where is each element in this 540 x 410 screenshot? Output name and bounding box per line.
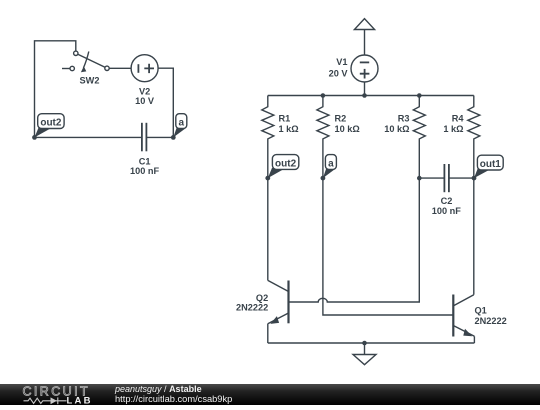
capacitor C1	[130, 123, 159, 176]
svg-text:SW2: SW2	[80, 75, 100, 85]
svg-text:V2: V2	[139, 87, 150, 97]
wire Q2 emitter down	[267, 324, 269, 343]
wire V2 to right	[158, 68, 173, 137]
svg-text:out2: out2	[275, 158, 297, 169]
resistor R3	[384, 96, 425, 179]
svg-text:10 V: 10 V	[135, 96, 155, 106]
voltage source V1	[329, 55, 378, 82]
svg-text:10 kΩ: 10 kΩ	[335, 124, 360, 134]
transistor Q2	[236, 280, 288, 324]
top rail	[268, 95, 474, 97]
svg-text:C2: C2	[441, 196, 453, 206]
resistor R1	[262, 96, 299, 179]
logo diode	[48, 400, 67, 402]
svg-text:100 nF: 100 nF	[130, 166, 159, 176]
svg-text:R3: R3	[398, 114, 410, 124]
svg-text:out2: out2	[40, 117, 62, 128]
transistor Q1	[453, 295, 506, 337]
svg-text:2N2222: 2N2222	[475, 316, 507, 326]
wire R4 branch down to Q1 collector	[473, 178, 475, 295]
wire SW2 to V2	[109, 67, 131, 69]
node out2 (right flag)	[265, 155, 298, 181]
node a (right flag)	[321, 155, 337, 181]
svg-text:1 kΩ: 1 kΩ	[279, 124, 299, 134]
svg-text:http://circuitlab.com/csab9kp: http://circuitlab.com/csab9kp	[115, 394, 232, 404]
wire a-branch to Q1 base	[323, 178, 453, 315]
bottom rail	[268, 342, 475, 344]
wire bottom right	[146, 136, 173, 138]
wire R1 branch down to Q2 collector	[267, 178, 269, 280]
logo resistor squiggle	[24, 397, 67, 404]
svg-text:a: a	[179, 117, 185, 128]
voltage source V2	[131, 55, 158, 107]
VCC arrow	[354, 19, 374, 55]
svg-text:peanutsguy / Astable: peanutsguy / Astable	[114, 384, 202, 394]
wire R3 bottom to C2	[419, 177, 444, 179]
svg-text:Q1: Q1	[475, 305, 487, 315]
footer bar	[0, 384, 540, 405]
svg-text:2N2222: 2N2222	[236, 302, 268, 312]
junction dot rail R3	[417, 93, 422, 98]
ground	[353, 343, 376, 365]
svg-text:C1: C1	[139, 157, 151, 167]
resistor R2	[317, 96, 360, 179]
wire Q1 emitter down	[473, 336, 475, 343]
wire bottom left	[35, 136, 142, 138]
svg-text:R4: R4	[452, 114, 465, 124]
node a (left flag)	[171, 114, 187, 140]
junction dot ground	[362, 341, 367, 346]
resistor R4	[443, 96, 479, 179]
node out2 (left flag)	[32, 114, 64, 140]
junction dot rail V1	[362, 93, 367, 98]
wire C2 to R4 branch	[449, 177, 474, 179]
svg-text:10 kΩ: 10 kΩ	[384, 124, 409, 134]
switch SW2	[62, 51, 109, 85]
capacitor C2	[432, 164, 461, 216]
wire Q2 base to R3/C2 node (hop over a-wire)	[289, 178, 420, 302]
svg-text:a: a	[328, 158, 334, 169]
svg-text:20 V: 20 V	[329, 69, 349, 79]
svg-text:100 nF: 100 nF	[432, 206, 461, 216]
wire left loop top	[35, 41, 76, 138]
svg-text:V1: V1	[336, 57, 347, 67]
svg-text:R1: R1	[279, 114, 291, 124]
node out1 flag	[472, 155, 504, 180]
junction dot C2 left	[417, 176, 422, 181]
junction dot rail R2	[321, 93, 326, 98]
svg-text:out1: out1	[480, 159, 502, 170]
svg-text:1 kΩ: 1 kΩ	[443, 124, 463, 134]
svg-text:R2: R2	[335, 114, 347, 124]
wire V1 to rail	[364, 82, 366, 96]
svg-text:LAB: LAB	[67, 395, 93, 405]
